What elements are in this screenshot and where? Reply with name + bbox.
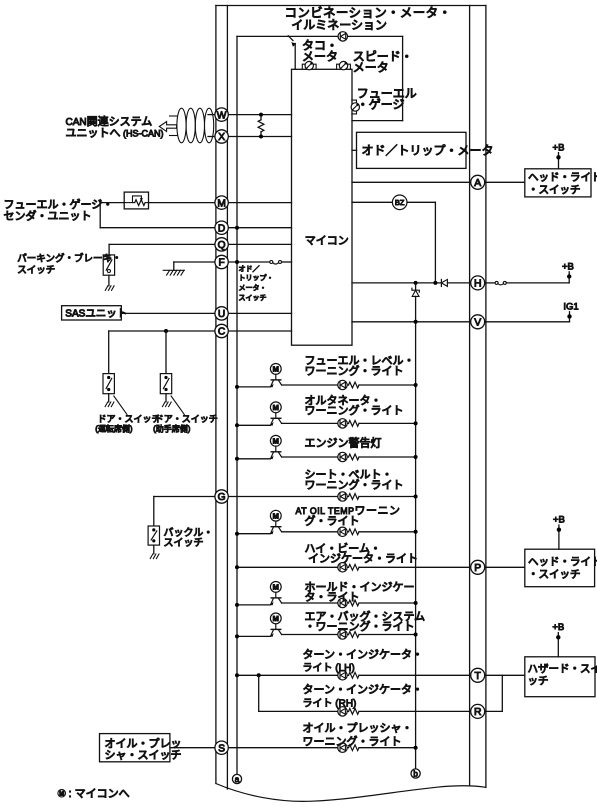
wire: M line inside meter — [228, 202, 291, 204]
node: air bag warning light to ground bus — [235, 634, 239, 638]
combination meter outer boundary (left outer edge) — [215, 6, 217, 784]
wire: X to twisted pair — [208, 136, 215, 138]
svg-text:オド／: オド／ — [239, 265, 260, 273]
svg-text:ワーニング・ライト: ワーニング・ライト — [303, 734, 402, 748]
pin T — [471, 668, 485, 682]
transistor (air bag warning light driver, base from microcomputer M) — [270, 613, 281, 637]
wire: H node down to zener — [415, 283, 417, 290]
legend: M = to microcomputer — [58, 788, 130, 800]
resistor: engine warning light — [349, 454, 359, 460]
svg-text:フューエル・ゲージ・: フューエル・ゲージ・ — [4, 198, 114, 211]
wire: engine warning light left segment — [237, 458, 270, 460]
node: turn indicator LH to ground bus — [235, 673, 239, 677]
label: high beam indicator light — [305, 542, 419, 565]
svg-text:ワーニング・ライト: ワーニング・ライト — [305, 477, 404, 491]
svg-text:メータ: メータ — [302, 49, 338, 63]
wire: A line from maikon — [352, 181, 471, 183]
svg-text:ワーニング・ライト: ワーニング・ライト — [305, 363, 404, 377]
wire: hold indicator light lamp segment — [282, 602, 416, 604]
wire: Q line to parking brake switch — [109, 243, 215, 245]
resistor: AT OIL TEMP warning light — [349, 529, 359, 535]
LED lamp: turn indicator LH — [338, 671, 347, 680]
ground bus wire (left lamp bus, vertical) — [236, 36, 238, 774]
label: seat belt warning light — [305, 469, 404, 491]
svg-text:U: U — [218, 309, 225, 320]
twisted pair left stubs — [170, 115, 178, 117]
svg-text:R: R — [474, 707, 482, 718]
svg-text:F: F — [218, 258, 224, 269]
wire: sender loop to D — [100, 202, 124, 204]
pin F — [215, 255, 228, 268]
node: D line to ground bus — [235, 226, 239, 230]
svg-text:+B: +B — [553, 515, 565, 526]
svg-text:シャ・スイッチ: シャ・スイッチ — [105, 748, 182, 761]
svg-text:パーキング・ブレーキ・: パーキング・ブレーキ・ — [17, 253, 121, 265]
svg-text:C: C — [218, 327, 225, 338]
wire: alternator warning light lamp segment — [282, 422, 416, 424]
node: engine warning light to ground bus — [235, 457, 239, 461]
combination meter outer boundary (right outer edge) — [485, 6, 487, 788]
svg-text:M: M — [273, 437, 279, 446]
leader line (driver door switch) — [114, 396, 127, 415]
transistor (hold indicator light driver, base from microcomputer M) — [270, 582, 281, 606]
svg-text:BZ: BZ — [395, 198, 405, 207]
resistor: seat belt warning light — [349, 494, 359, 500]
node: air bag warning light to power bus — [414, 633, 418, 637]
wire: seat belt warning light — [228, 496, 415, 498]
svg-text:M: M — [59, 792, 64, 798]
wire: T to hazard switch — [485, 674, 525, 676]
label: turn indicator LH — [303, 648, 423, 674]
resistor: air bag warning light — [349, 632, 359, 638]
svg-text:ッチ: ッチ — [528, 675, 549, 687]
label: turn indicator RH — [303, 683, 423, 709]
fuel gauge symbol — [351, 100, 359, 114]
svg-text:IG1: IG1 — [563, 301, 578, 312]
svg-text:オド／トリップ・メータ: オド／トリップ・メータ — [362, 143, 494, 157]
LED lamp: alternator warning light — [338, 419, 347, 428]
fuel gauge sender unit (variable resistor) — [124, 192, 148, 209]
buzzer BZ — [392, 195, 407, 210]
svg-text:b: b — [413, 769, 418, 778]
node: hold indicator light to power bus — [414, 601, 418, 605]
+B terminal (hazard switch) — [557, 637, 559, 657]
svg-text:トリップ・: トリップ・ — [239, 274, 274, 282]
wire: U line inside meter — [228, 312, 291, 314]
arrow: to CAN system units — [159, 122, 176, 132]
wire: P to headlight switch — [485, 566, 525, 568]
combination meter torn bottom edge — [216, 784, 486, 802]
svg-text:V: V — [474, 318, 481, 329]
wire: turn indicator LH — [237, 674, 471, 676]
+B terminal (headlight switch lower) — [558, 530, 560, 550]
pin S — [215, 741, 228, 754]
head light switch box (upper) — [525, 169, 591, 197]
svg-text:X: X — [218, 132, 225, 143]
ignition contact (H to +B) — [485, 282, 495, 284]
illumination feed arrow into meter — [288, 36, 293, 41]
svg-text:A: A — [474, 178, 481, 189]
svg-text:メータ・: メータ・ — [239, 283, 267, 292]
wire: drop to door switch (passenger) — [165, 331, 167, 374]
node: power bus top — [414, 281, 418, 285]
svg-text:a: a — [235, 775, 240, 784]
pin U — [215, 307, 228, 320]
wire: buzzer to H node — [407, 201, 435, 203]
LED lamp: high beam indicator light — [338, 563, 347, 572]
label: fuel level warning light — [305, 355, 415, 377]
pin Q — [215, 238, 228, 251]
wire: H line from maikon — [352, 282, 441, 284]
label: engine warning light — [305, 436, 382, 450]
resistor: fuel level warning light — [349, 382, 359, 388]
wire: hold indicator light left segment — [237, 604, 270, 606]
wire: V to IG1 — [485, 321, 570, 323]
door switch (passenger side) — [160, 374, 171, 394]
wire: V line from maikon — [352, 321, 471, 323]
svg-text:ユニットへ (HS-CAN): ユニットへ (HS-CAN) — [66, 128, 164, 140]
resistor: alternator warning light — [349, 421, 359, 427]
buckle switch — [148, 526, 159, 545]
svg-text:+B: +B — [562, 262, 574, 273]
node: engine warning light to power bus — [414, 455, 418, 459]
wire: illumination right drop — [402, 36, 404, 120]
svg-text:W: W — [217, 110, 227, 121]
+B terminal (headlight switch upper) — [558, 157, 560, 169]
door switch (driver side) — [103, 374, 114, 394]
ground (parking brake) — [105, 286, 114, 291]
node: hold indicator light to ground bus — [235, 603, 239, 607]
LED lamp: turn indicator RH — [338, 707, 347, 716]
transistor (alternator warning light driver, base from microcomputer M) — [270, 402, 281, 426]
LED lamp: AT OIL TEMP warning light — [338, 527, 347, 536]
wire: fuel level warning light lamp segment — [282, 384, 416, 386]
wire: D line inside meter — [228, 227, 291, 229]
speedometer gauge symbol — [337, 61, 351, 69]
wire: M line to fuel sender — [149, 202, 215, 204]
wire: oil pressure switch to S — [170, 747, 215, 749]
ground (door switch passenger) — [162, 402, 171, 407]
svg-text:タ・ライト: タ・ライト — [305, 591, 360, 604]
pin A — [471, 175, 485, 189]
LED lamp: hold indicator light — [338, 598, 347, 607]
wire: odo/trip box to maikon — [352, 149, 357, 151]
combination meter right connector strip inner edge — [469, 6, 471, 786]
wire: turn RH branch drop — [258, 675, 260, 711]
svg-text:ワーニング・ライト: ワーニング・ライト — [305, 403, 404, 417]
label: hold indicator light — [305, 581, 415, 604]
svg-text:AT OIL TEMPワーニン: AT OIL TEMPワーニン — [296, 505, 401, 517]
wire: G line to buckle switch — [154, 496, 215, 498]
resistor: turn indicator LH — [349, 672, 359, 678]
wire: buckle switch to ground — [153, 545, 155, 554]
LED lamp: oil pressure warning light — [338, 743, 347, 752]
node: AT OIL TEMP warning light to power bus — [414, 530, 418, 534]
head light switch box (lower) — [525, 549, 595, 587]
node: alternator warning light to power bus — [414, 421, 418, 425]
wire: air bag warning light left segment — [237, 635, 270, 637]
svg-text:ヘッド・ライト: ヘッド・ライト — [528, 556, 597, 568]
power bus wire (right, vertical) — [415, 296, 417, 769]
svg-text:G: G — [218, 492, 226, 503]
node: buzzer junction — [433, 281, 437, 285]
pin X — [215, 130, 228, 143]
svg-text:メータ: メータ — [353, 60, 389, 74]
resistor: hold indicator light — [349, 600, 359, 606]
svg-text:+B: +B — [553, 142, 565, 153]
node: high beam indicator light to ground bus — [235, 565, 239, 569]
pin W — [215, 108, 228, 121]
svg-text:P: P — [474, 563, 481, 574]
wire: AT OIL TEMP warning light left segment — [237, 533, 270, 535]
svg-text:+B: +B — [552, 622, 564, 633]
wire: F line inside meter — [228, 261, 270, 263]
off-page connector a (ground bus) — [232, 774, 241, 784]
wire: SAS unit to U — [121, 312, 215, 314]
wire: Q line inside meter — [228, 243, 291, 245]
svg-text:スイッチ: スイッチ — [164, 537, 204, 549]
pin V — [471, 315, 485, 329]
wire: drop to door switch (driver) — [108, 331, 110, 374]
wire: contact to +B — [506, 282, 569, 284]
label: alternator warning light — [305, 394, 404, 417]
node: AT OIL TEMP warning light to ground bus — [235, 532, 239, 536]
microcomputer (maikon) box — [292, 69, 353, 345]
svg-text:T: T — [475, 671, 482, 682]
label: AT OIL TEMP warning light — [305, 513, 360, 527]
wire: hazard branch to R — [501, 675, 503, 711]
wire: tacho illumination drop — [294, 44, 296, 70]
svg-text:スイッチ: スイッチ — [239, 294, 267, 302]
node: alternator warning light to ground bus — [235, 423, 239, 427]
node: door switch branch — [164, 329, 168, 333]
pin R — [471, 704, 485, 718]
node: resistor junctions — [259, 113, 263, 117]
svg-text:ライト (RH): ライト (RH) — [303, 697, 357, 709]
svg-text:ライト (LH): ライト (LH) — [303, 662, 355, 674]
svg-text:オイル・プレッシャ・: オイル・プレッシャ・ — [303, 722, 413, 735]
svg-text:・ゲージ: ・ゲージ — [357, 97, 405, 111]
wire: F line to chassis ground — [174, 261, 215, 263]
pin G — [215, 490, 228, 503]
svg-text:(助手席側): (助手席側) — [153, 423, 191, 433]
svg-text:ドア・スイッチ: ドア・スイッチ — [98, 414, 161, 424]
tachometer gauge symbol — [302, 61, 316, 69]
resistor: high beam indicator light — [349, 564, 359, 570]
svg-text:(運転席側): (運転席側) — [95, 423, 133, 433]
svg-text:Q: Q — [218, 240, 226, 251]
svg-text:M: M — [273, 583, 279, 592]
SAS unit box — [62, 306, 122, 320]
wire: maikon to buzzer — [352, 201, 392, 203]
svg-text:M: M — [273, 403, 279, 412]
svg-text:スイッチ: スイッチ — [17, 265, 55, 276]
wire: W to twisted pair — [208, 114, 215, 116]
svg-text:ハザード・スイ: ハザード・スイ — [528, 663, 597, 675]
wire: switch to ground — [108, 275, 110, 286]
leader line (passenger door switch) — [171, 396, 184, 415]
node: turn RH branch — [257, 673, 261, 677]
hazard switch box — [525, 657, 595, 697]
wire: alternator warning light left segment — [237, 424, 270, 426]
wire: turn indicator RH — [259, 710, 471, 712]
svg-text:・スイッチ: ・スイッチ — [528, 569, 581, 581]
wire: air bag warning light lamp segment — [282, 634, 416, 636]
illumination LED lamp — [338, 32, 347, 41]
node: fuel level warning light to power bus — [414, 383, 418, 387]
odo/trip meter box — [357, 132, 467, 168]
diode (H line) — [441, 279, 447, 286]
node: fuel level warning light to ground bus — [235, 385, 239, 389]
svg-text:D: D — [218, 223, 225, 234]
svg-text:センダ・ユニット: センダ・ユニット — [4, 209, 92, 223]
node: F line to ground bus — [235, 260, 239, 264]
svg-text:・スイッチ: ・スイッチ — [528, 184, 581, 196]
combination meter top edge — [216, 5, 486, 7]
resistor: turn indicator RH — [349, 709, 359, 715]
CAN termination resistor — [260, 115, 262, 120]
off-page connector b (power bus) — [411, 769, 420, 779]
LED lamp: engine warning light — [338, 452, 347, 461]
svg-text:ターン・インジケータ・: ターン・インジケータ・ — [303, 683, 423, 696]
parking brake switch — [103, 255, 114, 275]
wire: engine warning light lamp segment — [282, 456, 416, 458]
LED lamp: seat belt warning light — [338, 492, 347, 501]
node: V line junction — [414, 320, 418, 324]
wire: oil pressure warning light — [228, 747, 415, 749]
ground (door switch driver) — [105, 402, 114, 407]
node: oil pressure warning light to power bus — [414, 746, 418, 750]
svg-text:SASユニット: SASユニット — [65, 307, 127, 319]
svg-text:M: M — [273, 614, 279, 623]
svg-text:ヘッド・ライト: ヘッド・ライト — [528, 172, 597, 184]
pin H — [471, 276, 485, 290]
svg-text:M: M — [273, 511, 279, 520]
wire: W line to maikon — [228, 114, 291, 116]
wire: AT OIL TEMP warning light lamp segment — [282, 531, 416, 533]
ground (F line) — [163, 270, 184, 275]
illumination wire (horizontal top) — [237, 35, 338, 37]
ground (buckle switch) — [150, 554, 159, 559]
transistor (engine warning light driver, base from microcomputer M) — [270, 435, 281, 459]
wire: high beam indicator light — [237, 566, 471, 568]
svg-text:インジケータ・ライト: インジケータ・ライト — [308, 552, 418, 565]
pin D — [215, 221, 228, 234]
wire: C line inside meter — [228, 330, 291, 332]
resistor: oil pressure warning light — [349, 745, 359, 751]
twisted pair (HS-CAN) — [177, 108, 214, 143]
label: oil pressure warning light — [303, 722, 413, 749]
wire: C line to door switches — [109, 330, 215, 332]
svg-text:M: M — [217, 198, 226, 209]
wire: diode to H pin — [447, 282, 470, 284]
wire: fuel level warning light left segment — [237, 386, 270, 388]
zener diode — [412, 288, 419, 296]
transistor (AT OIL TEMP warning light driver, base from microcomputer M) — [270, 510, 281, 534]
LED lamp: air bag warning light — [338, 630, 347, 639]
pin C — [215, 324, 228, 337]
oil pressure switch box — [100, 734, 170, 762]
wire: X line to maikon — [228, 136, 291, 138]
svg-text:M: M — [273, 365, 279, 374]
svg-text:エンジン警告灯: エンジン警告灯 — [305, 436, 382, 450]
svg-text:: マイコンへ: : マイコンへ — [69, 788, 130, 800]
svg-text:ターン・インジケータ・: ターン・インジケータ・ — [303, 648, 423, 661]
LED lamp: fuel level warning light — [338, 380, 347, 389]
svg-text:マイコン: マイコン — [305, 235, 349, 247]
label: air bag warning light — [305, 609, 426, 633]
node: seat belt warning light to power bus — [414, 495, 418, 499]
pin M — [215, 196, 228, 209]
combination meter left connector strip inner edge — [226, 6, 228, 790]
svg-text:H: H — [474, 279, 482, 290]
odo/trip meter switch contact — [270, 261, 282, 265]
svg-text:CAN関連システム: CAN関連システム — [66, 114, 153, 128]
wire: A to headlight switch — [485, 181, 525, 183]
pin P — [471, 560, 485, 574]
svg-text:S: S — [218, 743, 225, 754]
transistor (fuel level warning light driver, base from microcomputer M) — [270, 364, 281, 388]
svg-text:イルミネーション: イルミネーション — [291, 18, 387, 32]
svg-text:・ワーニング・ライト: ・ワーニング・ライト — [305, 619, 415, 633]
svg-text:ドア・スイッチ: ドア・スイッチ — [155, 414, 218, 424]
